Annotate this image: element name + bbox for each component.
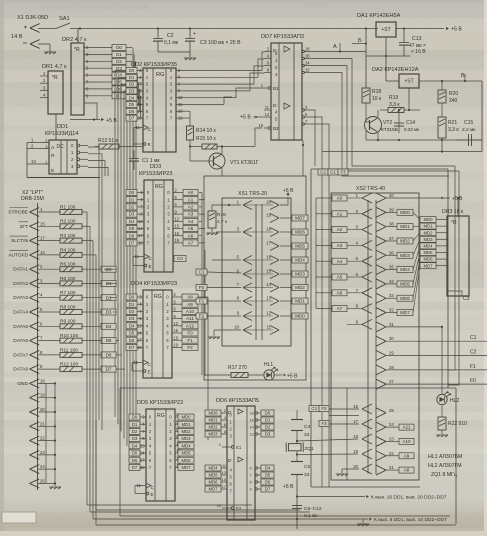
svg-text:D1: D1 (129, 302, 135, 307)
svg-text:15: 15 (175, 224, 180, 229)
svg-text:F2: F2 (199, 314, 205, 319)
svg-text:22: 22 (389, 451, 394, 456)
ground XS2 pin20 (336, 469, 359, 476)
svg-text:ZQ1 8 МГц: ZQ1 8 МГц (431, 472, 457, 478)
switch SA1 (38, 16, 70, 29)
svg-text:5: 5 (250, 480, 252, 484)
resistor R15 (189, 128, 262, 149)
svg-text:R18: R18 (372, 89, 381, 95)
capacitor C15 (456, 120, 482, 146)
svg-text:D5: D5 (129, 331, 135, 336)
svg-text:F0: F0 (187, 331, 193, 336)
svg-text:36: 36 (389, 250, 394, 255)
svg-text:2: 2 (224, 409, 226, 413)
wire mid verticals (99, 176, 102, 430)
svg-text:11: 11 (265, 105, 270, 110)
text part list (428, 454, 462, 478)
svg-text:3: 3 (250, 487, 252, 491)
resistor R16 (206, 204, 241, 235)
transistor VT2 (365, 110, 398, 140)
svg-text:D6: D6 (106, 353, 112, 358)
svg-text:DD2 КР1533ИР35: DD2 КР1533ИР35 (131, 62, 177, 68)
svg-text:A9: A9 (404, 453, 410, 458)
svg-text:DATA5: DATA5 (13, 324, 28, 330)
svg-text:D3: D3 (106, 310, 112, 315)
svg-text:DR2 4,7 к: DR2 4,7 к (62, 37, 87, 43)
svg-text:D6: D6 (132, 458, 138, 463)
svg-text:A6: A6 (337, 290, 343, 295)
svg-text:D4: D4 (129, 95, 135, 100)
svg-text:A4: A4 (188, 219, 194, 224)
svg-text:9: 9 (250, 466, 252, 470)
svg-text:А: А (333, 44, 337, 50)
node labels D0-D7 top (112, 45, 126, 99)
svg-text:C3 100 мк × 25 В: C3 100 мк × 25 В (200, 40, 241, 46)
svg-text:DA1 КР142ЕН5А: DA1 КР142ЕН5А (357, 13, 401, 19)
svg-text:12: 12 (305, 68, 310, 73)
svg-text:D5: D5 (265, 473, 271, 478)
capacitor C2 (153, 29, 179, 53)
svg-text:15: 15 (40, 221, 45, 226)
svg-text:MD7: MD7 (295, 216, 305, 221)
svg-text:C1: C1 (330, 170, 336, 175)
svg-text:MD3: MD3 (400, 253, 410, 258)
wire routing box XS2 (311, 169, 448, 487)
wire DA bottom rails (322, 131, 482, 153)
svg-text:0,33 мк: 0,33 мк (404, 127, 419, 132)
svg-text:D0: D0 (129, 190, 135, 195)
svg-text:C1: C1 (470, 335, 477, 341)
svg-text:20: 20 (266, 200, 271, 205)
svg-text:17: 17 (222, 485, 226, 489)
svg-text:F1: F1 (199, 299, 205, 304)
svg-text:C2: C2 (320, 170, 326, 175)
wire DD1 out bus (88, 147, 108, 176)
capacitor C1 (129, 150, 160, 170)
svg-text:C2: C2 (470, 350, 477, 356)
svg-text:MD6: MD6 (208, 480, 218, 485)
svg-text:F0: F0 (470, 378, 476, 384)
svg-text:21: 21 (40, 421, 45, 426)
svg-text:D6: D6 (129, 109, 135, 114)
svg-text:12: 12 (175, 217, 180, 222)
svg-text:D1: D1 (129, 75, 135, 80)
svg-text:DD7 КР1533АП3: DD7 КР1533АП3 (261, 34, 304, 40)
svg-text:19: 19 (258, 123, 263, 128)
svg-text:14: 14 (250, 425, 254, 429)
register DD4 (126, 281, 182, 378)
connector X1 (11, 15, 48, 48)
svg-text:HL1 АЛ307БМ: HL1 АЛ307БМ (428, 454, 462, 460)
power +5V XS1 (280, 188, 294, 205)
svg-text:AUTOFD: AUTOFD (8, 252, 28, 258)
svg-text:A0: A0 (337, 196, 343, 201)
svg-text:24: 24 (40, 464, 45, 469)
svg-text:A6: A6 (188, 233, 194, 238)
svg-text:MD1: MD1 (208, 418, 218, 423)
wire control bus down (87, 212, 456, 525)
svg-text:A12: A12 (186, 323, 195, 328)
svg-text:MD4: MD4 (400, 267, 410, 272)
node labels MD DD6 (205, 410, 221, 492)
svg-text:15: 15 (174, 328, 179, 333)
svg-text:E: E (149, 264, 152, 269)
svg-text:D5: D5 (129, 226, 135, 231)
wire DD1 inputs (27, 143, 100, 178)
svg-text:18: 18 (353, 434, 358, 439)
svg-text:14: 14 (305, 61, 310, 66)
svg-text:R21: R21 (448, 120, 457, 126)
svg-text:D4: D4 (116, 73, 122, 78)
svg-text:MD0: MD0 (400, 210, 410, 215)
svg-text:*R: *R (451, 220, 457, 226)
svg-text:D4: D4 (265, 466, 271, 471)
resistor network DR3 (442, 198, 469, 296)
svg-text:C14: C14 (406, 120, 415, 126)
svg-text:MD2: MD2 (295, 285, 305, 290)
node A (310, 43, 366, 53)
svg-text:DATA4: DATA4 (13, 310, 28, 316)
node label C0 (174, 256, 186, 262)
wire DD2 outputs (183, 52, 264, 125)
svg-text:D3: D3 (116, 66, 122, 71)
capacitor C4 (291, 410, 310, 444)
svg-text:D3: D3 (129, 316, 135, 321)
resistor R17 (205, 365, 263, 378)
svg-text:XS2 TRS-40: XS2 TRS-40 (356, 186, 385, 192)
svg-text:11: 11 (222, 464, 226, 468)
svg-text:ДЛЯ ВАС: ДЛЯ ВАС (300, 3, 328, 10)
svg-text:D3: D3 (132, 436, 138, 441)
svg-text:D3: D3 (265, 432, 271, 437)
svg-text:R19: R19 (389, 95, 398, 101)
svg-text:X1 DJK-05D: X1 DJK-05D (17, 15, 48, 21)
svg-text:R17 270: R17 270 (228, 365, 247, 371)
svg-text:A9: A9 (187, 302, 193, 307)
svg-text:16: 16 (174, 335, 179, 340)
capacitor C3 (185, 29, 241, 53)
svg-text:MD7: MD7 (423, 263, 433, 268)
svg-text:× 16 В: × 16 В (411, 49, 426, 55)
svg-text:19: 19 (353, 449, 358, 454)
node labels A0-A7 XS2 (316, 195, 362, 324)
svg-text:18: 18 (250, 411, 254, 415)
svg-text:*R: *R (52, 75, 58, 81)
svg-text:23: 23 (389, 436, 394, 441)
svg-text:21: 21 (389, 465, 394, 470)
svg-text:A3: A3 (337, 243, 343, 248)
svg-text:B2: B2 (273, 126, 279, 131)
svg-text:14 В: 14 В (11, 34, 23, 40)
svg-text:3,3 к: 3,3 к (448, 127, 459, 133)
svg-text:22: 22 (40, 436, 45, 441)
node labels MD DD5 (178, 414, 194, 470)
svg-text:R13 51 к: R13 51 к (98, 138, 119, 144)
svg-text:E: E (151, 492, 154, 497)
svg-text:MD4: MD4 (423, 244, 433, 249)
connector X2 control pins (8, 207, 60, 259)
svg-text:1: 1 (219, 443, 221, 447)
svg-text:34: 34 (389, 279, 394, 284)
node labels D0-D7 mid (101, 266, 125, 372)
connector X2 data pins (13, 264, 60, 373)
svg-text:D6: D6 (129, 338, 135, 343)
svg-text:D5: D5 (129, 102, 135, 107)
svg-text:MD1: MD1 (295, 299, 305, 304)
svg-text:ЗГТ: ЗГТ (20, 224, 28, 230)
node labels D DD6 (261, 410, 274, 492)
svg-text:MD0: MD0 (423, 217, 433, 222)
svg-text:MD4: MD4 (181, 443, 191, 448)
text note vyv16 (297, 495, 447, 501)
svg-text:RG: RG (156, 72, 164, 78)
svg-text:+5 В: +5 В (287, 374, 298, 380)
capacitor C5 (291, 462, 310, 482)
svg-text:D6: D6 (129, 233, 135, 238)
svg-text:VT1 КТ361Г: VT1 КТ361Г (230, 160, 259, 166)
svg-text:DR1 4,7 к: DR1 4,7 к (42, 64, 67, 70)
svg-text:D4: D4 (106, 324, 112, 329)
svg-text:E1: E1 (236, 445, 242, 450)
svg-text:18: 18 (137, 116, 142, 121)
svg-text:MD5: MD5 (208, 473, 218, 478)
svg-text:+5 В: +5 В (106, 118, 117, 124)
svg-text:25: 25 (389, 408, 394, 413)
svg-text:+5 В: +5 В (283, 484, 294, 490)
svg-text:D: D (228, 458, 232, 464)
svg-text:12: 12 (174, 321, 179, 326)
wires XS2 to edge nets (385, 326, 487, 384)
svg-text:D7: D7 (129, 241, 135, 246)
register DD5 (129, 400, 183, 501)
text note vyv9 (93, 517, 447, 526)
resistor network DR1 (40, 64, 67, 140)
svg-text:F1: F1 (470, 364, 476, 370)
svg-text:DATA1: DATA1 (13, 267, 28, 273)
svg-text:A11: A11 (186, 316, 194, 321)
svg-text:MD1: MD1 (181, 422, 191, 427)
decoder DD1 (27, 124, 88, 174)
svg-text:C2: C2 (167, 33, 174, 39)
svg-text:D: D (273, 103, 277, 109)
svg-text:17: 17 (40, 236, 45, 241)
svg-text:DD4 КР1533ИР23: DD4 КР1533ИР23 (131, 281, 177, 287)
svg-text:18: 18 (266, 227, 271, 232)
ground XS1 pin10 (208, 330, 241, 339)
register DD2 (126, 62, 183, 152)
svg-text:MD1: MD1 (400, 224, 410, 229)
svg-text:MD6: MD6 (400, 296, 410, 301)
svg-text:C5: C5 (304, 464, 310, 470)
svg-text:DATA7: DATA7 (13, 352, 28, 358)
svg-text:0,1 мк: 0,1 мк (304, 513, 318, 519)
svg-text:+: + (193, 31, 196, 37)
svg-text:DD5 КР1533ИР23: DD5 КР1533ИР23 (137, 400, 183, 406)
svg-text:D5: D5 (106, 338, 112, 343)
power +5V DD7 (240, 115, 264, 121)
svg-text:MD0: MD0 (181, 415, 191, 420)
node labels A8-A11 XS2 (385, 424, 414, 473)
resistor network DR2 (62, 29, 112, 120)
svg-text:DC: DC (57, 144, 65, 150)
svg-text:D3: D3 (129, 212, 135, 217)
svg-text:16: 16 (250, 418, 254, 422)
svg-text:MD6: MD6 (295, 230, 305, 235)
svg-text:F2: F2 (187, 345, 193, 350)
svg-text:13: 13 (31, 159, 36, 164)
svg-text:D2: D2 (129, 309, 135, 314)
svg-text:16: 16 (305, 54, 310, 59)
svg-text:A11: A11 (403, 425, 411, 430)
svg-text:F2: F2 (321, 406, 327, 411)
wires ZQ1 XS2 (297, 439, 358, 455)
svg-text:31: 31 (389, 322, 394, 327)
svg-text:SLCTIN: SLCTIN (11, 238, 29, 244)
svg-text:20: 20 (40, 407, 45, 412)
buffer DD7 (258, 34, 310, 140)
power +5V bottom (283, 481, 298, 529)
svg-text:D0: D0 (116, 45, 122, 50)
svg-text:14: 14 (266, 282, 271, 287)
svg-text:6: 6 (224, 423, 226, 427)
svg-text:R16: R16 (217, 212, 226, 218)
power +5V DD1 (70, 118, 117, 124)
svg-text:MD5: MD5 (400, 282, 410, 287)
register DD3 (126, 164, 183, 272)
svg-text:17: 17 (353, 419, 358, 424)
svg-text:13: 13 (222, 471, 226, 475)
svg-text:D7: D7 (106, 367, 112, 372)
svg-text:MD1: MD1 (423, 224, 433, 229)
svg-text:14: 14 (137, 102, 142, 107)
wire A bus (199, 193, 205, 377)
svg-text:DATA6: DATA6 (13, 338, 28, 344)
svg-text:A3: A3 (188, 212, 194, 217)
svg-text:DR3 10 к: DR3 10 к (442, 209, 464, 215)
svg-text:F1: F1 (187, 338, 193, 343)
svg-text:28: 28 (389, 365, 394, 370)
svg-text:13: 13 (264, 112, 269, 117)
svg-text:D0: D0 (129, 68, 135, 73)
svg-text:11: 11 (267, 325, 272, 330)
svg-text:В: В (461, 73, 465, 79)
svg-text:HL2: HL2 (450, 398, 459, 404)
socket XS2 (331, 186, 419, 480)
LED HL2 (437, 327, 460, 405)
svg-text:VT2: VT2 (383, 120, 392, 126)
svg-text:D5: D5 (132, 451, 138, 456)
svg-text:К выв. 9 DD1, выв. 10 DD2–DD7: К выв. 9 DD1, выв. 10 DD2–DD7 (374, 517, 447, 523)
svg-text:17: 17 (266, 241, 271, 246)
svg-text:A5: A5 (188, 226, 194, 231)
svg-text:33: 33 (389, 293, 394, 298)
svg-text:17: 17 (137, 109, 142, 114)
svg-text:0,1 мк: 0,1 мк (164, 40, 179, 46)
svg-text:15: 15 (353, 404, 358, 409)
crystal ZQ1 (286, 443, 314, 462)
connector X2 (21, 190, 44, 490)
svg-text:ЗАО ВО СТРОЙ ВО НЕСТО ВАШИМ: ЗАО ВО СТРОЙ ВО НЕСТО ВАШИМ (42, 3, 149, 11)
svg-text:16: 16 (266, 255, 271, 260)
svg-text:F3: F3 (340, 170, 346, 175)
svg-text:E: E (148, 370, 151, 375)
svg-text:8: 8 (224, 430, 226, 434)
svg-text:R22 910: R22 910 (448, 421, 467, 427)
svg-text:30: 30 (389, 336, 394, 341)
svg-text:240: 240 (449, 98, 458, 104)
svg-text:D3: D3 (129, 89, 135, 94)
ground X1 (38, 44, 56, 54)
svg-text:RG: RG (157, 413, 165, 419)
svg-text:MD3: MD3 (295, 272, 305, 277)
capacitor C14 (394, 109, 419, 133)
resistors R5-R12 (60, 262, 101, 372)
svg-text:40: 40 (389, 193, 394, 198)
svg-text:DATA8: DATA8 (13, 367, 28, 373)
svg-text:10 к: 10 к (372, 96, 382, 102)
svg-text:18: 18 (40, 378, 45, 383)
svg-text:A8: A8 (404, 468, 410, 473)
svg-text:DA2 КР142ЕН12А: DA2 КР142ЕН12А (372, 67, 419, 73)
svg-text:4: 4 (224, 416, 226, 420)
svg-text:C3: C3 (463, 296, 470, 302)
svg-text:F3: F3 (321, 421, 327, 426)
svg-text:ZQ1: ZQ1 (305, 446, 315, 452)
wires XS1 left nets (196, 232, 241, 319)
svg-text:XS1 TRS-20: XS1 TRS-20 (238, 191, 267, 197)
svg-text:R14 10 к: R14 10 к (196, 128, 217, 134)
svg-text:D7: D7 (265, 487, 271, 492)
svg-text:D1: D1 (129, 197, 135, 202)
svg-text:R: R (51, 153, 55, 159)
svg-text:19: 19 (217, 504, 221, 508)
svg-text:КТ315Б: КТ315Б (381, 127, 398, 133)
svg-text:MD2: MD2 (423, 230, 433, 235)
svg-text:37: 37 (389, 236, 394, 241)
svg-text:C4: C4 (304, 424, 310, 430)
svg-text:B1: B1 (273, 86, 279, 91)
svg-text:D2: D2 (265, 425, 271, 430)
svg-text:19: 19 (40, 393, 45, 398)
svg-text:HL2 АЛ307ГМ: HL2 АЛ307ГМ (428, 463, 462, 469)
wire +14V rail (70, 27, 378, 29)
svg-text:27: 27 (389, 379, 394, 384)
svg-text:C0: C0 (177, 256, 183, 261)
svg-text:D7: D7 (129, 116, 135, 121)
svg-text:КР1533ИД14: КР1533ИД14 (45, 131, 78, 137)
ground C2C3 (158, 52, 196, 60)
svg-text:D4: D4 (132, 443, 138, 448)
svg-text:39: 39 (389, 207, 394, 212)
svg-text:GND: GND (17, 381, 28, 387)
svg-text:33: 33 (304, 472, 310, 478)
svg-text:MD6: MD6 (423, 257, 433, 262)
svg-text:D7: D7 (129, 345, 135, 350)
svg-text:A8: A8 (187, 295, 193, 300)
svg-text:E: E (51, 168, 54, 174)
svg-text:D0: D0 (129, 295, 135, 300)
svg-text:A4: A4 (337, 259, 343, 264)
svg-text:4,7 к: 4,7 к (217, 219, 228, 225)
svg-text:MD4: MD4 (295, 258, 305, 263)
node labels MD DR3 (413, 212, 447, 312)
resistor R18 (362, 88, 382, 116)
node labels MD XS1 (280, 215, 308, 319)
svg-text:КР1533ИР23: КР1533ИР23 (139, 171, 172, 177)
label sticker (2, 512, 36, 523)
svg-text:C13: C13 (412, 36, 422, 42)
svg-text:19: 19 (266, 213, 271, 218)
